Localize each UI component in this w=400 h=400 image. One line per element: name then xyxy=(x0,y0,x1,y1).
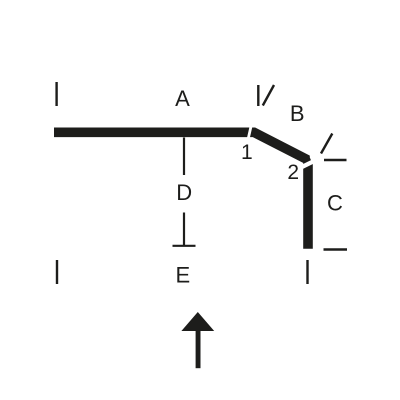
tick top-left xyxy=(55,82,57,106)
tick top-middle vertical xyxy=(257,85,259,106)
gap between segment A and B xyxy=(248,126,251,139)
arrow head xyxy=(181,312,214,331)
gap between segment B and C xyxy=(302,161,314,167)
svg-text:1: 1 xyxy=(241,141,253,164)
tick right slash xyxy=(321,134,332,154)
dimension line D upper xyxy=(183,138,185,176)
svg-text:E: E xyxy=(175,262,190,287)
svg-text:D: D xyxy=(176,180,192,205)
svg-text:C: C xyxy=(327,191,343,216)
dimension line D crossbar xyxy=(173,245,196,247)
tick bottom vertical xyxy=(306,260,308,284)
tick bottom-left xyxy=(56,260,58,284)
svg-text:2: 2 xyxy=(287,161,299,184)
arrow stem xyxy=(196,330,201,368)
tick top-middle slash xyxy=(263,85,274,106)
tick bottom-right horizontal xyxy=(324,248,348,250)
profile thick polyline (segments A,B,C) xyxy=(54,132,308,249)
svg-text:A: A xyxy=(175,86,190,111)
svg-text:B: B xyxy=(290,101,305,126)
gap corner eraser xyxy=(310,150,318,162)
tick right horizontal xyxy=(324,159,347,161)
dimension line D lower xyxy=(183,213,185,246)
